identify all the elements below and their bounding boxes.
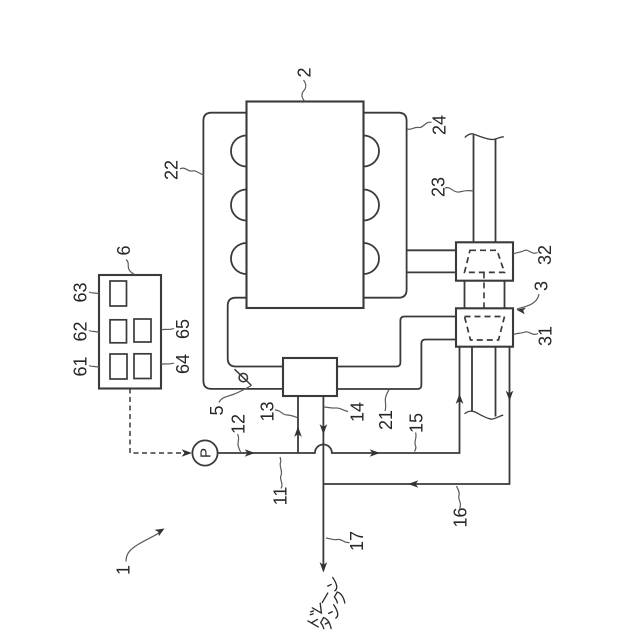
arrow down line 16 top [506,391,514,401]
break mark duct below 31 [465,411,504,419]
glyph レ [312,601,325,613]
arrow up into 31 [456,394,464,404]
leader 62 [89,331,99,333]
sub-block 64 [134,354,151,379]
wire duct between 32 and 31 [465,281,505,309]
svg-text:13: 13 [257,401,277,421]
control dashed line from 6 to pump [130,389,188,454]
svg-text:22: 22 [161,160,181,180]
leader 31 [514,332,539,335]
leader 16 [457,486,461,509]
leader 12 [238,434,242,453]
svg-text:16: 16 [450,507,470,527]
leader 3 with arrow [517,294,539,309]
svg-text:5: 5 [207,405,227,415]
break mark duct 23 top [465,134,504,140]
leader 23 [445,188,474,192]
svg-text:P: P [198,448,215,458]
leader 63 [89,292,99,294]
wire intake duct 23 [474,135,496,243]
leader 32 [513,250,538,254]
glyph ド [306,610,324,627]
arrow down line 14 [320,424,328,434]
svg-text:62: 62 [70,321,90,341]
turbine box 32 [456,242,513,280]
svg-text:6: 6 [114,245,134,255]
sensor 5 circle [239,373,247,381]
wire exhaust duct to turbine lower [407,271,456,273]
arrow up line 13 [294,427,302,437]
svg-text:24: 24 [429,115,449,135]
drain tank caption (katakana drawn as paths) [306,577,348,631]
leader 11 [280,457,282,489]
wire manifold outline 22/24 around engine [203,113,406,389]
cylinder ports left [231,136,262,167]
svg-text:65: 65 [173,319,193,339]
svg-text:14: 14 [347,402,367,422]
glyph ー [322,593,328,603]
wire pipe 21 box4 to compressor lower [337,340,456,390]
svg-text:63: 63 [70,282,90,302]
leader 61 [89,366,99,368]
glyph ク [333,592,348,606]
leader 22 [180,168,204,175]
wire line 16 [323,347,509,484]
compressor box 31 [456,308,513,346]
svg-text:11: 11 [270,487,290,506]
arrow left line 16 [408,480,418,488]
leader 17 [326,538,350,543]
glyph タ [319,617,334,631]
leader 21 [385,390,389,412]
wire pump line 15 with hop and riser to 31 [218,347,460,453]
leader 13 [275,410,297,418]
svg-text:32: 32 [535,245,555,265]
box 4 [283,358,337,396]
svg-text:15: 15 [406,413,426,433]
leader 65 [161,329,174,331]
turbo shaft dashed [483,272,485,316]
svg-text:3: 3 [531,281,551,291]
svg-text:61: 61 [70,356,90,376]
leader 5 [219,386,252,403]
arrow on dashed control line [182,449,192,457]
leader 1 with arrow [126,531,162,562]
glyph ン (2) [328,605,341,619]
leader 2 [302,80,306,102]
svg-text:2: 2 [294,67,314,77]
svg-text:1: 1 [113,565,133,575]
cylinder ports right [348,136,379,167]
leader 14 [324,407,349,412]
svg-text:23: 23 [428,177,448,197]
glyph ン [327,577,340,591]
sub-block 63 [110,281,127,306]
leader 24 [407,122,432,129]
pump P [192,440,217,465]
arrow on pump line right [370,449,380,457]
svg-text:12: 12 [228,414,248,434]
svg-text:31: 31 [535,326,555,346]
sensor 5 slash [235,369,252,385]
sub-block 62 [110,320,127,343]
svg-text:17: 17 [347,531,367,551]
turbine wheel 32 dashed trapezoid [465,250,505,272]
wire line 13 [297,396,299,453]
wire line 14 / drain line 17 [322,396,324,571]
wire duct below 31 [472,347,496,417]
leader 15 [415,433,417,452]
wire exhaust duct to turbine upper [407,249,456,251]
leader 6 [126,260,135,275]
wire pipe box4 to compressor upper [337,317,456,367]
sub-block 65 [134,319,151,342]
arrow down drain 17 [320,562,328,572]
arrow on pump line left [245,449,255,457]
leader 64 [161,363,174,365]
sub-block 61 [110,354,127,379]
svg-text:64: 64 [173,354,193,374]
compressor wheel 31 dashed trapezoid [465,317,505,341]
svg-text:21: 21 [376,410,396,430]
engine block 2 [247,102,364,309]
controller box 6 [99,275,161,389]
